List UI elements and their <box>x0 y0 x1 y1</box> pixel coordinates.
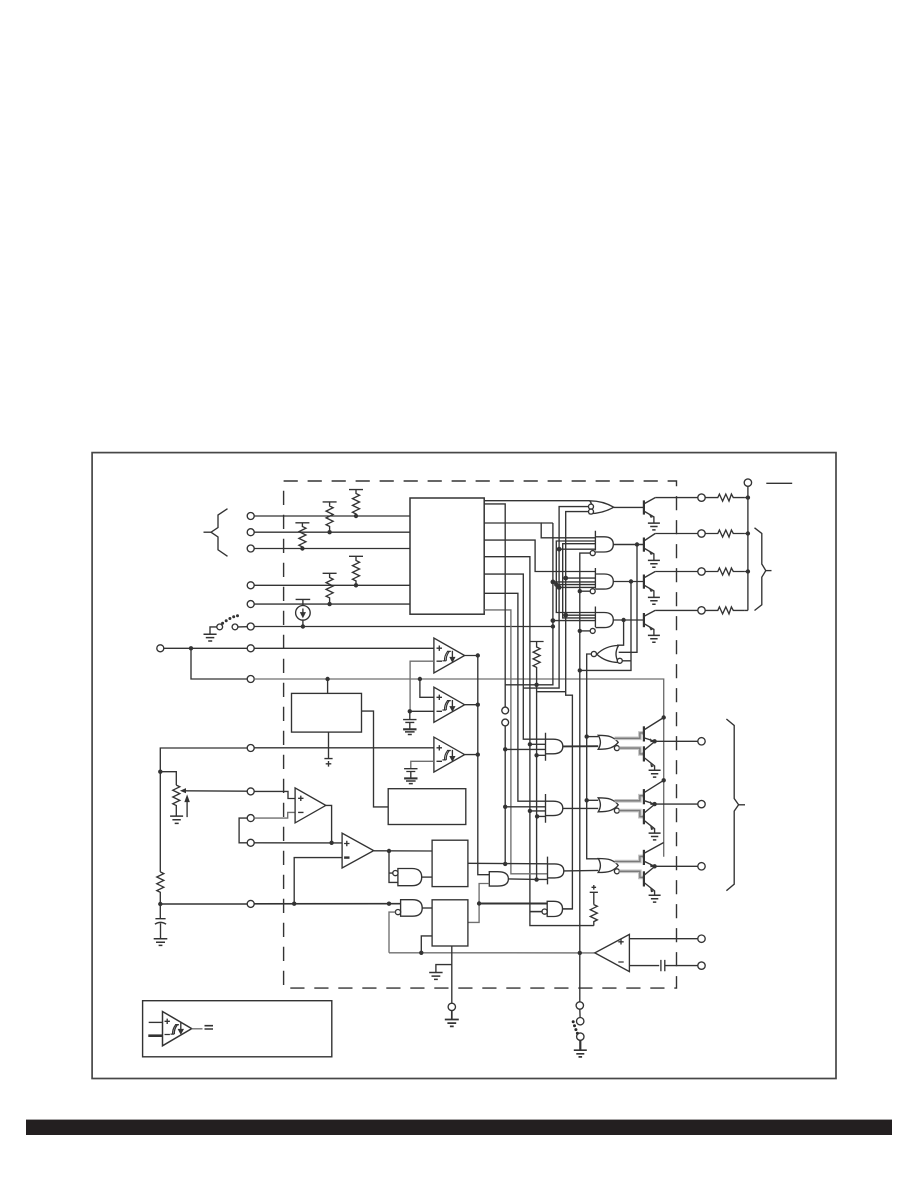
terminal comp node <box>247 839 254 846</box>
wire row out4 <box>655 609 698 611</box>
OR1 drive wires <box>615 733 644 754</box>
OR2 inverted output bubble <box>614 808 619 813</box>
logic decoder block U1 <box>410 498 484 614</box>
wire G3 bubble to v579 <box>580 590 590 592</box>
junction bus collector2 <box>662 778 666 782</box>
wire block1 top stem <box>327 679 329 693</box>
gate G3 input bubble <box>590 589 595 594</box>
wire row748 to left rail <box>160 748 247 872</box>
ground Q1 <box>648 523 660 530</box>
wire wiper to amp1 plus <box>254 791 295 798</box>
junction bus comp3 <box>476 752 480 756</box>
junction row7 branch <box>189 646 193 650</box>
junction v537/AND1 <box>534 753 538 757</box>
brace left tick <box>204 531 212 533</box>
junction v586/OR1 <box>585 734 589 738</box>
wire AND3 out to OR3 <box>564 869 599 872</box>
junction row/NAND2 <box>387 902 391 906</box>
wire NAND3 bubble stub <box>530 911 542 913</box>
junction G2out/v637 <box>635 542 639 546</box>
gate A input bubble2 <box>589 509 594 514</box>
wire block1 to OSC <box>362 711 389 807</box>
wire NAND2 out <box>422 907 432 909</box>
terminal OUT2 <box>698 530 705 537</box>
wire G4 output <box>613 619 643 621</box>
op-amp A2 <box>342 833 374 868</box>
gate A input bubble1 <box>589 504 594 509</box>
terminal IN3 <box>247 545 254 552</box>
junction bus row3 <box>746 569 750 573</box>
wire row out3 <box>655 571 698 573</box>
junction A2out/NAND1 <box>387 849 391 853</box>
terminal VBB top <box>744 479 751 486</box>
output stage2 lower transistor <box>643 809 645 824</box>
wire feedback row 952.8 <box>389 952 595 954</box>
wire G2 bubble to v579 <box>580 553 590 1002</box>
terminal amp1 minus <box>247 815 254 822</box>
wire row748 to comp3 <box>254 747 434 749</box>
transistor Q1 <box>643 500 645 514</box>
terminal wiper <box>247 788 254 795</box>
junction v559/G3 <box>557 585 562 590</box>
junction row8/block1 <box>325 677 329 681</box>
capacitor BEMF <box>629 960 697 971</box>
ground pot <box>170 816 183 823</box>
wire AND1 out to OR1 <box>563 745 598 747</box>
brace right outputs <box>755 528 766 611</box>
terminal BEMF plus <box>698 935 705 942</box>
brace right tick <box>766 570 772 572</box>
junction v579/NOR wrap <box>578 668 582 672</box>
gate G4 input bubble <box>590 628 595 633</box>
ground internal <box>429 973 442 980</box>
gate A NOR (OR body, bubbled inputs) <box>590 501 614 514</box>
wire v637 to NOR input <box>619 545 637 653</box>
NAND1 input bubble <box>393 871 398 876</box>
wire harness v562 <box>563 544 596 618</box>
wire node1 out <box>655 740 698 742</box>
wire row1 <box>254 515 410 517</box>
wire NOR output to v586 <box>587 654 599 859</box>
block OSC <box>388 789 466 825</box>
wire riser to LB <box>421 936 432 953</box>
junction R1/row1 <box>354 514 358 518</box>
ground stage2 <box>649 833 661 840</box>
wire logic out7 to AND3 <box>484 610 547 874</box>
block1 bottom reference <box>324 732 332 767</box>
wire logic out4 bundle v529 <box>484 557 594 926</box>
terminal OUT4 <box>698 607 705 614</box>
wire node3 out <box>655 865 698 867</box>
wire gate A bubble1 harness v559 <box>523 507 589 688</box>
resistor series R out4 <box>705 607 744 614</box>
external feedback loop wire <box>239 818 247 843</box>
comp2 minus wire <box>410 710 434 712</box>
legend box <box>143 1001 332 1057</box>
wire logic out3 to gate G3 <box>484 540 595 571</box>
transistor Q3 <box>643 575 645 589</box>
junction rail row904 <box>158 902 162 906</box>
current source I1 <box>296 599 311 605</box>
brace left inputs <box>211 509 228 557</box>
switch S1 circles <box>217 624 223 630</box>
reference symbol ref2 <box>404 769 417 779</box>
op-amp A1 <box>295 788 326 823</box>
junction A2minus/row <box>292 902 296 906</box>
switch S2 <box>579 1009 581 1017</box>
junction bus row1 <box>746 495 750 499</box>
wire A2out branch to NAND1 <box>389 851 398 882</box>
wire v631 to NOR bubble input <box>580 582 631 671</box>
junction node1 <box>652 739 656 743</box>
wire row out1 <box>655 497 698 499</box>
wire v623 to NOR input <box>617 620 624 645</box>
gate AND2 small <box>489 872 508 886</box>
wire MB out to AND3 <box>468 862 548 865</box>
gate NAND2 <box>401 900 423 917</box>
junction v579/G3bubble <box>578 589 582 593</box>
terminal IN8 <box>247 676 254 683</box>
terminal OUT1 <box>698 494 705 501</box>
wire logic out stub to v505 test points <box>484 504 505 707</box>
gate NAND1 <box>398 869 422 886</box>
terminal IN5 <box>247 601 254 608</box>
terminal IN2 <box>247 529 254 536</box>
resistor pullup R4 <box>349 556 363 585</box>
comparator comp3 <box>434 737 465 772</box>
wire row4 <box>254 584 410 586</box>
wire out2 harness v552 <box>505 523 553 685</box>
gate OR2 <box>598 798 618 812</box>
junction bus comp1 <box>476 653 480 657</box>
resistor pullup R5 <box>323 573 337 604</box>
terminal GND <box>448 1003 455 1010</box>
terminal IN1 <box>247 513 254 520</box>
resistor pullup R2 <box>323 502 337 532</box>
resistor series R out1 <box>705 494 744 501</box>
ground for S1 <box>204 634 217 641</box>
wire pot feed <box>160 772 176 785</box>
ground external <box>445 1011 459 1027</box>
capacitor rail polarized <box>155 919 166 939</box>
junction row6 end <box>551 624 555 628</box>
wire logic out6 to AND2 <box>484 593 545 801</box>
speed adjust arrow <box>185 796 189 817</box>
gate NAND3 <box>547 901 562 916</box>
terminal BEMF minus <box>698 962 705 969</box>
terminal VREF row748 <box>247 745 254 752</box>
NAND3 input bubble <box>542 909 547 914</box>
junction ref1 <box>408 709 412 713</box>
riser LB out to AND2 top <box>468 884 489 923</box>
ground Q3 <box>648 597 660 604</box>
junction node2 <box>652 802 656 806</box>
reference symbol ref1 <box>403 711 416 729</box>
wire gate A bubble2 harness v565 <box>537 512 590 909</box>
legend comparator symbol <box>163 1012 192 1046</box>
transistor Q2 <box>643 538 645 552</box>
switch S1 wiper dots <box>221 614 239 625</box>
wire G4 bubble to v579 <box>580 630 590 632</box>
block LB decay <box>432 900 468 946</box>
pot wiper arrow <box>180 788 186 793</box>
junction row8/comp2 <box>418 677 422 681</box>
comparator output bus <box>465 656 490 875</box>
output stage3 upper transistor <box>643 850 645 865</box>
wire node2 out <box>655 803 698 805</box>
junction v537/AND2out row <box>534 877 538 881</box>
junction staircase/resistor line <box>534 683 538 687</box>
junction row952/switch line <box>578 951 582 955</box>
junction I1/row6 <box>301 624 305 628</box>
terminal OUTB <box>698 800 705 807</box>
wire v505 lower <box>504 726 506 864</box>
terminal IN4 <box>247 582 254 589</box>
legend equals sign <box>205 1026 214 1029</box>
gate AND1 chopper <box>546 733 563 761</box>
wire NAND2 bubble branch <box>389 912 395 953</box>
gate AND3 chopper <box>548 857 564 885</box>
sense threshold plus bar <box>590 885 598 905</box>
output stage2 upper transistor <box>643 789 645 804</box>
ground rail <box>154 939 168 946</box>
wire v537 chopper ref resistor line <box>530 642 544 880</box>
comp2 plus wire <box>420 679 434 697</box>
switch S1 wire to row6 <box>238 626 247 628</box>
wire G3 output <box>613 581 643 583</box>
wire logic out1 to gate A <box>484 500 590 502</box>
block MB monostable <box>432 840 468 886</box>
ANDM2 input stubs <box>503 805 507 809</box>
wire logic out5 to AND1 top <box>484 574 545 739</box>
wire row7 to row8 branch <box>191 648 247 679</box>
resistor sense <box>590 905 597 926</box>
wire row3 <box>254 548 410 550</box>
wire row thick to NAND3 <box>479 903 547 905</box>
brace right lower <box>726 719 738 891</box>
resistor series R out3 <box>705 568 744 575</box>
switch S1 ground wire <box>210 627 217 634</box>
junction rail/pot <box>158 770 162 774</box>
terminal speed input left <box>157 645 164 652</box>
IC dashed boundary <box>284 481 677 988</box>
wire NAND3 out <box>563 908 573 910</box>
test point circle TP1 <box>502 707 509 714</box>
OR1 inverted output bubble <box>614 746 619 751</box>
terminal OUT3 <box>698 568 705 575</box>
terminal OUTC <box>698 863 705 870</box>
wire G2 output <box>613 544 643 546</box>
wire row 904 <box>160 903 400 905</box>
test point circle TP2 <box>502 719 509 726</box>
gate ANDM2 chopper <box>546 794 563 823</box>
wire gate A output <box>614 506 644 508</box>
wire row8 supply to driver bus <box>254 679 664 857</box>
terminal OUTA <box>698 738 705 745</box>
outer border frame <box>92 453 836 1079</box>
gate G3 AND with bar <box>595 568 613 589</box>
junction v565/G3 <box>563 576 568 581</box>
ground Q2 <box>648 560 660 567</box>
junction G3out/v631 <box>629 579 633 583</box>
terminal IN6 <box>247 623 254 630</box>
ground stage3 <box>649 895 661 902</box>
junction R2/row2 <box>327 530 331 534</box>
junction bus comp2 <box>476 703 480 707</box>
ground Q4 <box>648 635 660 642</box>
junction bus row2 <box>746 531 750 535</box>
junction R3/row3 <box>300 546 304 550</box>
wire row7 to comparator <box>254 647 434 649</box>
resistor series R out2 <box>705 530 744 537</box>
block1 sample hold <box>292 693 362 732</box>
junction v505 end on MB wire <box>503 862 507 866</box>
junction node3 <box>652 864 656 868</box>
junction v559/G2 <box>557 547 562 552</box>
wire BEMF plus input <box>629 938 697 940</box>
ground stage1 <box>649 770 661 777</box>
wire row2 <box>254 531 410 533</box>
wire LB bottom to GND pin <box>436 946 452 1003</box>
junction row952/riser <box>419 951 423 955</box>
brace lower tick <box>739 804 745 806</box>
wire AND2 out <box>508 878 547 881</box>
junction A1out/row <box>329 841 333 845</box>
wire row7 left <box>164 647 247 649</box>
wire row out2 <box>655 533 698 535</box>
resistor pullup R1 <box>349 490 363 516</box>
potentiometer RV1 <box>173 785 180 816</box>
terminal IN7 <box>247 645 254 652</box>
gate G2 AND with bar <box>595 531 613 552</box>
wire logic out2 to gate G2 <box>484 523 595 538</box>
OR3 drive wires <box>615 856 644 877</box>
wire row6 <box>254 626 553 628</box>
rail resistor lower <box>157 872 164 919</box>
comparator comp1 <box>434 638 465 673</box>
junction v565/G4 <box>563 613 568 618</box>
wire amp1 minus <box>254 812 295 818</box>
OR2 drive wires <box>615 796 644 817</box>
gate G2 input bubble <box>590 551 595 556</box>
wire comp node row <box>254 842 342 844</box>
supply bus vertical right <box>744 486 748 610</box>
output stage1 upper transistor <box>643 726 645 741</box>
gate OR3 <box>598 859 618 873</box>
junction bus collector1 <box>662 715 666 719</box>
footer black bar <box>26 1120 892 1135</box>
NOR output bubble <box>591 651 596 656</box>
terminal TD select <box>576 1002 583 1009</box>
terminal row 904 <box>247 900 254 907</box>
junction G4out/v623 <box>621 618 625 622</box>
junction v552/G4 <box>551 618 556 623</box>
resistor pullup R3 <box>295 523 309 549</box>
junction R5/row5 <box>327 602 331 606</box>
junction v505/AND1 input <box>503 747 507 751</box>
OR3 inverted output bubble <box>614 869 619 874</box>
junction v552/G3 <box>551 580 556 585</box>
junction riser/row thick <box>477 901 481 905</box>
wire row5 <box>254 603 410 605</box>
wire harness v556 <box>556 541 595 613</box>
junction v586/OR2 <box>585 798 589 802</box>
wire A1 output to comp node <box>326 805 332 842</box>
wire A2 output <box>374 850 432 852</box>
output stage1 lower transistor <box>643 746 645 761</box>
junction v579/G4bubble <box>578 629 582 633</box>
junction R4/row4 <box>354 583 358 587</box>
wire A2 minus <box>294 858 342 904</box>
label tick VBB <box>766 482 792 484</box>
gate G4 AND with bar <box>595 607 613 628</box>
comp1 minus wire to ref <box>410 661 434 711</box>
NAND2 input bubble <box>395 910 400 915</box>
transistor Q4 <box>643 613 645 627</box>
junction v529/AND1 <box>528 742 532 746</box>
gate OR1 <box>598 735 618 749</box>
wire ANDM2 out to OR2 <box>563 807 598 809</box>
NOR lower input bubble <box>617 658 622 663</box>
comparator comp2 <box>434 687 465 722</box>
output stage3 lower transistor <box>643 871 645 886</box>
comparator BEMF left-pointing <box>595 934 630 971</box>
ground S2 <box>574 1050 587 1057</box>
comp3 minus wire to ref2 <box>411 761 434 768</box>
wire NAND1 out <box>422 876 432 878</box>
gate NOR left-pointing U2 <box>597 646 619 663</box>
